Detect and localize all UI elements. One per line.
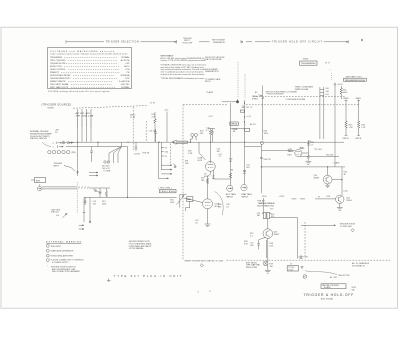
svg-text:.001: .001 <box>212 178 216 180</box>
boxed label: X10 <box>187 197 193 202</box>
wire: ext trig column x244.5 <box>244 100 246 184</box>
lower bus wire y166.9 <box>261 166 345 168</box>
svg-text:*: * <box>245 125 246 127</box>
wire: wafer2 vertical x90 <box>89 197 91 223</box>
svg-text:BLOCKING OSC: BLOCKING OSC <box>258 205 275 207</box>
wire: +225 feed x167 <box>166 112 168 143</box>
svg-text:4.7: 4.7 <box>310 145 313 147</box>
wire: box outline left of Q <box>270 218 298 259</box>
shield arc right of V28 <box>215 192 224 216</box>
dashed chassis line bottom <box>227 259 391 261</box>
boxed label: TRIGGERING MODE <box>300 61 318 65</box>
svg-text:+225V: +225V <box>337 84 343 86</box>
lower bus segment left <box>66 146 128 148</box>
junction dots on column <box>244 102 245 103</box>
svg-text:6DJ8: 6DJ8 <box>198 160 202 162</box>
label: R27 <box>201 177 205 181</box>
svg-text:2.7: 2.7 <box>219 156 222 158</box>
label: R55 470 <box>271 214 274 218</box>
label: ext holdoff (3 dark lines) <box>246 262 260 269</box>
label: R53 on vertical <box>344 171 347 175</box>
capacitor C44 on x244.5 <box>243 170 246 173</box>
svg-text:NO SIGNAL IN: NO SIGNAL IN <box>352 265 365 268</box>
svg-text:180: 180 <box>257 215 260 217</box>
wire: dashed wafer line mid segment <box>183 104 222 106</box>
wire: V24 cathode down <box>208 171 211 199</box>
label: C44 <box>246 165 250 169</box>
legend item 1 <box>46 245 49 248</box>
svg-text:PIN 15 SW: PIN 15 SW <box>246 267 258 269</box>
label: R58 right <box>270 243 275 247</box>
wire: dotted drop from asterisk <box>330 73 332 80</box>
terminal circle 2 <box>52 150 55 153</box>
svg-text:MFD BY TEK: MFD BY TEK <box>339 275 351 277</box>
resistor R27 on cathode <box>206 179 208 184</box>
wire: collector feed x341 lower <box>341 167 343 195</box>
svg-text:HOLD-OFF: HOLD-OFF <box>183 43 194 45</box>
wire: from X10 box down-left <box>186 201 190 211</box>
svg-text:AUG 1964 AB: AUG 1964 AB <box>321 298 334 301</box>
wire: x261.4 down from contact <box>260 145 262 194</box>
svg-text:R52 15K: R52 15K <box>326 154 334 156</box>
rotary contact circle on bus <box>260 142 263 145</box>
dashed gang x133 <box>132 107 134 150</box>
svg-text:.01: .01 <box>226 207 229 209</box>
svg-text:TRIGGER HOLD-OFF CIRCUIT: TRIGGER HOLD-OFF CIRCUIT <box>272 42 323 44</box>
svg-text:TRIGGERING: TRIGGERING <box>50 57 63 59</box>
resistor R13 between coax and pot line <box>105 188 107 197</box>
resistor R41 x341 top <box>340 86 342 99</box>
node: diamond marker bottom <box>200 264 203 267</box>
switch contact marks row 1 <box>56 142 62 144</box>
label: below V45 <box>287 148 304 157</box>
svg-text:.5 mSEC/CM: .5 mSEC/CM <box>118 81 129 83</box>
wire: rail y156.7 <box>300 156 339 158</box>
node: reference dot <box>361 39 363 41</box>
wire: coupling pair vertical B <box>323 87 325 139</box>
boxed label: PARTIAL SWITCH BOARD <box>321 284 346 289</box>
label: C55 180 <box>257 213 260 217</box>
contact circle b <box>67 142 69 144</box>
svg-text:(.04): (.04) <box>344 190 348 192</box>
labels: rail components <box>314 149 334 156</box>
voltage conditions table box <box>48 48 132 89</box>
wire: source switch vertical 2 <box>81 109 83 142</box>
svg-text:* +GATE: * +GATE <box>332 162 340 165</box>
fan terminal circles <box>104 161 106 163</box>
transistor Q55 internals <box>266 230 270 237</box>
junction at x341 <box>341 179 342 180</box>
label: right of box <box>352 287 356 291</box>
wire: V28 cathode down to ground <box>207 209 209 224</box>
contact circle coax <box>95 190 97 192</box>
ground under Q50 <box>325 184 330 188</box>
ground below x308.4 <box>306 162 312 165</box>
node: plus mark <box>76 171 79 174</box>
svg-text:SEL: SEL <box>187 199 191 201</box>
connector jack J41 line trig <box>241 185 247 191</box>
label: trigger pulse to sweep <box>340 223 356 227</box>
svg-text:J7: J7 <box>290 264 292 266</box>
svg-text:TRIG LEVEL: TRIG LEVEL <box>160 191 176 193</box>
wire: vertical x127.6 trig level feed <box>127 147 129 198</box>
svg-text:(TRIGGER SOURCE): (TRIGGER SOURCE) <box>42 103 72 107</box>
capacitor C26 x212.5 <box>211 129 214 143</box>
label: V24 6DJ8 <box>198 156 203 161</box>
svg-text:7: 7 <box>53 147 54 149</box>
svg-text:6AU6: 6AU6 <box>288 150 294 153</box>
svg-text:180: 180 <box>217 151 220 153</box>
terminal circle 3 <box>57 150 60 153</box>
labels: +gate cluster at dashes <box>298 255 309 259</box>
switch arm vertical x158.4 with arrow <box>158 142 168 179</box>
label: line trig source (2 lines) <box>51 209 61 217</box>
resistor R24 above bus <box>209 129 211 143</box>
svg-text:T1: T1 <box>209 291 211 293</box>
svg-text:2.2M: 2.2M <box>188 153 193 155</box>
svg-text:2N963: 2N963 <box>314 178 320 180</box>
labels: beside dashed boundary <box>185 161 189 165</box>
wire: Q54 emitter down + ground <box>337 204 343 211</box>
svg-text:2T 1F: 2T 1F <box>150 102 156 104</box>
wire: x262.7 continues to bus <box>262 99 264 141</box>
terminal circle 1 <box>48 150 51 153</box>
resistor R42 zigzag on x230.5 <box>229 173 231 178</box>
svg-text:C41 1.2: C41 1.2 <box>246 107 253 109</box>
capacitor C13 between coax and pot line <box>99 188 102 197</box>
wire: ext trig column x230.5 <box>231 103 245 185</box>
node: diamond marker right <box>351 229 354 232</box>
labels: from/to column left of triggering box <box>205 56 225 94</box>
label: right of cathode <box>212 175 216 179</box>
pickoff internals <box>264 262 267 266</box>
svg-text:SWP B: SWP B <box>355 138 362 140</box>
svg-text:+225: +225 <box>164 110 168 112</box>
wire: x308.4 cathode circuit <box>307 141 309 161</box>
capacitor C41 on column <box>242 106 245 107</box>
svg-text:C41: C41 <box>325 94 328 96</box>
svg-text:TO GRID: TO GRID <box>103 170 111 172</box>
wire: trigger output line <box>301 225 336 226</box>
section divider line: trigger hold-off circuit <box>241 40 348 43</box>
node: circled mark <box>303 275 307 279</box>
jack J41 pin <box>242 187 246 188</box>
jack J30 center pin <box>39 184 42 189</box>
capacitor C46 on x261.4 <box>260 157 263 158</box>
coax shield hatch <box>78 187 89 189</box>
svg-text:6DJ8: 6DJ8 <box>204 176 208 178</box>
boxed label: TD part number <box>287 266 298 271</box>
boxed label: EXT <box>35 178 46 183</box>
svg-text:SEE CONNECTION DIAGRAMS: SEE CONNECTION DIAGRAMS <box>52 270 80 273</box>
svg-text:VOLTAGE readings obtained unde: VOLTAGE readings obtained under NO test … <box>48 90 110 93</box>
wire: dash right of triggering box <box>325 62 330 64</box>
svg-text:GENERATOR B: GENERATOR B <box>205 70 219 73</box>
svg-text:-150V: -150V <box>262 196 268 198</box>
svg-text:+INT -INT +EXT: +INT -INT +EXT <box>75 113 91 115</box>
labels: R13 100K <box>102 201 107 205</box>
svg-text:TRIGGERING MODE: TRIGGERING MODE <box>345 80 366 82</box>
wire: link to lower bus <box>245 146 262 148</box>
wire: blob leads <box>222 99 238 102</box>
svg-text:100K: 100K <box>264 133 269 135</box>
svg-text:9.1: 9.1 <box>250 236 253 238</box>
ground below Q55 emitter <box>265 270 271 273</box>
labels: C13 .001 <box>93 201 97 205</box>
svg-text:-GATE: -GATE <box>355 97 361 100</box>
node: coupling network top blob <box>236 100 239 103</box>
label: 6DJ8 below tube <box>204 173 208 177</box>
svg-text:STABILITY: STABILITY <box>50 71 60 74</box>
label: switch in extreme clockwise position <box>266 91 298 95</box>
small note block center-bottom <box>129 240 152 250</box>
wire: neon stubs <box>190 136 197 142</box>
boxed label: TRIG coupling <box>230 122 239 125</box>
transformer T55 winding 1 <box>263 212 266 218</box>
wire: ext box lead <box>31 179 35 181</box>
junction neon <box>190 142 191 143</box>
svg-text:TRIGGER SENSITIVITY: TRIGGER SENSITIVITY <box>50 78 71 80</box>
svg-text:470: 470 <box>271 216 274 218</box>
wire: base line Q55 <box>259 237 266 244</box>
wire: gate line vertical x358.6 <box>357 100 359 136</box>
svg-text:SWP A: SWP A <box>343 137 350 140</box>
potentiometer wiper arrow <box>177 196 185 205</box>
table rows with dotted leaders <box>50 56 130 89</box>
jack J40 pin <box>228 188 232 189</box>
registration cross <box>107 279 111 283</box>
svg-text:(PWR): (PWR) <box>252 99 258 101</box>
svg-text:100K: 100K <box>300 148 305 150</box>
wire: wafer2 vertical x84 <box>83 197 86 222</box>
svg-text:+C22: +C22 <box>208 116 213 118</box>
label: R41 440K <box>343 89 348 93</box>
wire: source switch vertical 4 <box>90 109 92 142</box>
dotted gang wafer 2 <box>76 182 78 213</box>
svg-text:440K: 440K <box>343 92 348 94</box>
transformer polarity dots <box>262 213 263 214</box>
svg-text:180: 180 <box>218 207 221 209</box>
labels: above contacts <box>55 130 60 134</box>
svg-text:T55: T55 <box>270 209 273 211</box>
legend item 3 <box>46 254 49 257</box>
wire: source switch vertical 1 <box>77 109 79 142</box>
pickoff curve at coax end <box>93 189 102 192</box>
svg-text:2N963: 2N963 <box>346 200 352 202</box>
label: V28 right <box>215 204 220 208</box>
small box component on column <box>240 110 244 112</box>
wire: dashed mode line (long) <box>222 104 360 106</box>
svg-text:controls, TYPE 547 No. B10000: controls, TYPE 547 No. B10000 and previo… <box>161 59 207 62</box>
freehand curve note <box>305 271 337 275</box>
wire: dotted gang line to mode switch <box>237 62 239 98</box>
label: trigger input 2-line <box>54 163 63 167</box>
label: R44 100K <box>264 130 269 134</box>
potentiometer body line <box>180 195 187 208</box>
label: AC coupling arrow note <box>255 91 262 96</box>
label: R24 33K <box>200 130 204 134</box>
svg-text:.05: .05 <box>195 222 198 224</box>
label: trig pwr pair <box>252 96 258 100</box>
label: small note mid-bottom <box>244 241 249 245</box>
svg-text:HORIZONTAL AMPLIFIER: HORIZONTAL AMPLIFIER <box>51 255 74 258</box>
svg-text:under conditions given below.: under conditions given below. Voltages m… <box>50 53 128 56</box>
junction on pot line <box>127 197 128 198</box>
svg-text:TRIGGER & HOLD-OFF: TRIGGER & HOLD-OFF <box>304 293 354 297</box>
tube V45 envelope <box>295 149 302 156</box>
svg-text:TRIGGERING: TRIGGERING <box>301 63 316 65</box>
wire: Q55 emitter double line down <box>267 238 268 270</box>
tube V24 internals <box>208 162 214 168</box>
wire: gate line vertical x346 <box>345 100 347 136</box>
connector jack J40 ext trig input <box>227 185 233 191</box>
svg-text:.005: .005 <box>250 245 254 247</box>
svg-text:47: 47 <box>318 197 320 199</box>
svg-text:C24 .001: C24 .001 <box>149 130 157 132</box>
svg-text:TRIG. INPUT SIGNAL: TRIG. INPUT SIGNAL <box>50 83 69 86</box>
svg-text:BOARD: BOARD <box>324 286 331 289</box>
wire: vertical x77 down from bus <box>77 142 79 176</box>
label: PULSE TRANSFORMER BLOCKING OSCILLATOR <box>258 201 275 211</box>
svg-text:+ L41: + L41 <box>246 116 251 118</box>
wire: divider mid segment <box>199 41 210 43</box>
dashed gang to holdoff <box>304 222 306 259</box>
svg-text:STAIRCASE GENERATOR: STAIRCASE GENERATOR <box>51 250 75 253</box>
svg-text:C52 .001: C52 .001 <box>314 149 322 151</box>
legend item 4 (2 lines) <box>46 259 49 262</box>
svg-text:2T 1B: 2T 1B <box>130 117 136 119</box>
svg-text:R18 1M: R18 1M <box>143 152 150 154</box>
svg-text:TRIG: TRIG <box>287 154 292 156</box>
svg-text:LEVEL CONTROL: LEVEL CONTROL <box>50 69 66 71</box>
dashed section boundary vertical x183 <box>182 105 184 261</box>
svg-text:R54: R54 <box>327 196 330 198</box>
wire: x263.75 from -150V area down <box>263 198 265 212</box>
rungs between pair <box>320 90 324 96</box>
label: R42 1M <box>229 158 232 162</box>
transistor Q50 envelope <box>323 175 332 184</box>
svg-text:+225V: +225V <box>279 196 285 198</box>
svg-text:C40: C40 <box>325 88 328 90</box>
label: Q55 right <box>274 232 280 236</box>
label: R50 100K near bus <box>300 141 311 150</box>
notes paragraph block <box>161 54 207 80</box>
capacitor C57 <box>257 244 260 250</box>
junction on lower bus <box>261 166 262 167</box>
label: R46 <box>361 125 366 129</box>
svg-text:(TRIG): (TRIG) <box>231 124 238 126</box>
svg-text:TO SWP GEN: TO SWP GEN <box>340 226 353 228</box>
wire: Q54 base line <box>292 198 336 200</box>
capacitor C18 drop x136 <box>135 142 138 151</box>
wire: hook from trigger input label <box>64 166 75 172</box>
label: C26 4.7 <box>206 127 209 131</box>
bus tick left end <box>62 141 64 144</box>
svg-text:1M: 1M <box>231 169 234 171</box>
fan wires verticals <box>109 153 118 163</box>
svg-text:MODE / TRIG: MODE / TRIG <box>50 66 62 68</box>
wire: V24 plate up to bus <box>209 142 211 161</box>
label: trig coupling switch note (dark, 2 lines) <box>295 87 313 91</box>
neon lamp pair B20 <box>191 133 194 136</box>
tube V45 internals <box>296 152 300 154</box>
labels: pair cap values <box>325 88 329 96</box>
pot bottom line <box>84 196 177 198</box>
svg-text:TO AMP: TO AMP <box>206 91 214 94</box>
svg-text:A1 / 547: A1 / 547 <box>330 276 337 279</box>
svg-text:336: 336 <box>352 290 355 292</box>
svg-text:INPUT: INPUT <box>242 197 249 199</box>
label: R45 <box>349 125 354 129</box>
transistor Q54 internals <box>338 196 341 202</box>
svg-text:2N963: 2N963 <box>274 234 280 236</box>
annotation leader curve <box>42 142 51 146</box>
svg-text:POSITION SHOWN: POSITION SHOWN <box>267 94 284 96</box>
boxed label: TRIGGER LEVEL <box>160 189 177 192</box>
svg-text:1M: 1M <box>229 161 232 163</box>
connector jack J30 ext trig <box>38 186 43 191</box>
svg-text:-EXT +LINE -LINE: -EXT +LINE -LINE <box>76 116 94 118</box>
ground with squiggle <box>301 267 304 269</box>
label: 1M under <box>231 169 234 171</box>
svg-text:.001: .001 <box>246 167 250 169</box>
section divider line: trigger selection <box>66 40 177 43</box>
svg-text:C18 82: C18 82 <box>134 154 140 156</box>
label: note right of chassis dashes <box>352 262 370 267</box>
label: C50 4.7 <box>310 142 313 146</box>
wire to bus from contact <box>70 142 74 145</box>
svg-text:MULTI: MULTI <box>205 81 211 83</box>
wire: tap x85 down <box>84 197 87 205</box>
label: Q50 2N963 <box>314 175 320 179</box>
signal flow hollow arrow on bus <box>172 140 188 144</box>
label: R30 250K <box>170 199 175 203</box>
label: C29 .05 <box>195 220 198 224</box>
wire: dotted gang line 2 <box>244 74 246 98</box>
wire: V45 plate right <box>302 152 308 154</box>
wire: source switch vertical 3 <box>85 109 87 142</box>
svg-text:1 DIV: 1 DIV <box>125 78 130 80</box>
boxed label: TRIGGERING MODE switch detail <box>344 78 367 81</box>
svg-text:VIA T601: VIA T601 <box>51 211 59 214</box>
svg-text:HORIZONTAL DISPLAY: HORIZONTAL DISPLAY <box>50 74 71 77</box>
svg-text:1k: 1k <box>165 156 167 158</box>
svg-text:250K: 250K <box>170 202 175 204</box>
wire: transformer to Q55 <box>267 219 269 229</box>
wire: grid line to tube V45 <box>261 150 294 152</box>
switch gang dashed line <box>169 144 171 164</box>
svg-text:R46 27K: R46 27K <box>264 159 272 161</box>
svg-text:INPUT: INPUT <box>226 197 233 199</box>
svg-text:*: * <box>47 266 48 268</box>
svg-text:VERT. GAIN / VOLTS: VERT. GAIN / VOLTS <box>50 86 69 89</box>
wire: wiper to grid <box>184 198 203 203</box>
label: C57 <box>250 243 254 247</box>
wire: vertical x335 long <box>334 85 336 167</box>
svg-text:COINCIDENCE SLAVE: COINCIDENCE SLAVE <box>286 98 306 101</box>
terminal circle top x335 <box>334 83 336 85</box>
svg-text:VIA PIN 9, SEE 5/11: VIA PIN 9, SEE 5/11 <box>30 137 47 140</box>
svg-text:AUTO: AUTO <box>124 65 130 68</box>
svg-text:+GATE OUT: +GATE OUT <box>298 256 309 259</box>
labels: tap cap values <box>165 148 168 158</box>
wire: jumper bus to lower bus <box>97 142 99 146</box>
terminal tick x358 <box>357 100 360 135</box>
labels: R40A 1M network <box>233 128 238 133</box>
svg-text:GENERATOR: GENERATOR <box>213 41 225 44</box>
svg-text:EXT: EXT <box>36 181 41 183</box>
svg-text:+GATE: +GATE <box>343 97 350 100</box>
